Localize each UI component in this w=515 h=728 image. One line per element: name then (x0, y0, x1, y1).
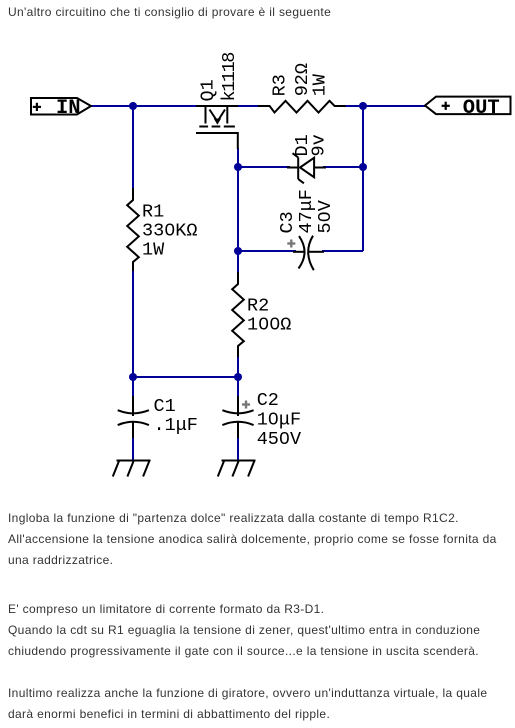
node at R1 bottom (129, 373, 137, 381)
wire C3 left lead (238, 250, 296, 252)
wire Q1 to R3 (237, 105, 261, 107)
svg-text:C2: C2 (257, 390, 279, 411)
port IN (31, 97, 91, 120)
svg-text:1W: 1W (309, 73, 330, 96)
wire IN to Q1 (91, 105, 197, 107)
intro text (8, 2, 331, 23)
wire C2 to ground (237, 436, 239, 461)
svg-text:C1: C1 (154, 396, 176, 417)
zero-dot patches (168, 215, 326, 440)
node at gate/D1 left (234, 163, 242, 171)
capacitor C2 (222, 396, 253, 438)
node at IN/R1 (129, 102, 137, 110)
node at C3 left/R2 (234, 247, 242, 255)
paragraph 2 (8, 599, 480, 662)
wire down to C2 (237, 377, 239, 398)
wire D1 node to C3 node (237, 167, 239, 251)
svg-text:OUT: OUT (463, 97, 500, 120)
plus mark C3 (287, 240, 295, 248)
resistor R2 (232, 272, 244, 357)
svg-text:k1118: k1118 (219, 53, 240, 102)
svg-text:10μF: 10μF (257, 410, 301, 431)
wire C1 to ground (132, 436, 134, 461)
wire down to C1 (132, 377, 134, 398)
paragraph 1 (8, 508, 497, 571)
node at R2 bottom (234, 373, 242, 381)
wire C3 right lead (322, 250, 363, 252)
node junction dots (129, 102, 367, 381)
svg-text:1W: 1W (142, 239, 165, 260)
ground for C2 (218, 461, 256, 477)
transistor Q1 (196, 106, 238, 149)
svg-text:R3: R3 (270, 74, 291, 96)
port OUT (425, 97, 511, 120)
svg-text:100Ω: 100Ω (247, 315, 291, 336)
svg-text:Q1: Q1 (197, 79, 218, 101)
wire D1 left lead (238, 166, 290, 168)
wire out-node down to D1 node (362, 106, 364, 167)
wire gate down to D1 left node (237, 148, 239, 167)
svg-text:R2: R2 (247, 296, 269, 317)
wire R3 to OUT (344, 105, 426, 107)
ground for C1 (113, 461, 151, 477)
capacitor C1 (118, 396, 149, 438)
wire bottom rail (133, 376, 238, 378)
svg-text:450V: 450V (257, 429, 301, 450)
svg-text:47μF: 47μF (296, 189, 317, 233)
resistor R1 (127, 188, 139, 271)
capacitor C3 (293, 236, 324, 271)
svg-text:IN: IN (56, 97, 81, 120)
wire D1 right lead (323, 166, 363, 168)
wire R2 to bottom node (237, 355, 239, 377)
diode D1 (287, 153, 326, 183)
svg-text:9v: 9v (309, 134, 330, 156)
paragraph 3 (8, 683, 487, 725)
svg-text:R1: R1 (142, 201, 164, 222)
node at D1 right (359, 163, 367, 171)
wire D1 node down to C3 corner (362, 167, 364, 251)
wire node A down to R1 (132, 106, 134, 190)
svg-text:.1μF: .1μF (154, 415, 198, 436)
svg-text:C3: C3 (277, 211, 298, 233)
wire R1 to bottom node (132, 269, 134, 377)
resistor R3 (258, 101, 346, 113)
node at R3/OUT (359, 102, 367, 110)
plus mark C2 (242, 401, 250, 409)
wire C3 node to R2 (237, 251, 239, 274)
